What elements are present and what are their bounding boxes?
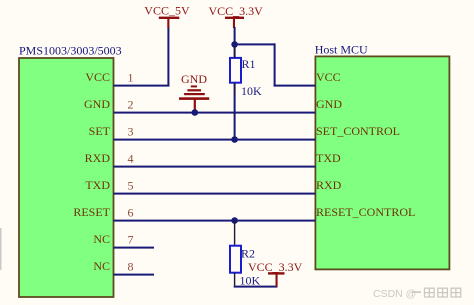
svg-text:6: 6 — [128, 205, 134, 219]
svg-text:4: 4 — [128, 151, 134, 165]
wire branch horizontal into host VCC pin — [274, 85, 316, 87]
svg-text:7: 7 — [128, 232, 134, 246]
ground symbol bar 2 — [187, 89, 201, 91]
wire pin2 GND horizontal — [114, 112, 316, 114]
svg-text:TXD: TXD — [85, 178, 110, 192]
svg-text:VCC_3.3V: VCC_3.3V — [248, 260, 303, 274]
svg-text:Host MCU: Host MCU — [315, 43, 368, 57]
svg-text:CSDN @: CSDN @ — [373, 288, 416, 300]
wire pin5 TXD horizontal — [114, 193, 316, 195]
junction dot RESET pull-up — [231, 217, 238, 224]
watermark CJK glyph 3 (yan) — [438, 288, 448, 297]
svg-text:GND: GND — [84, 97, 110, 111]
wire pin4 RXD horizontal — [114, 166, 316, 168]
watermark CJK glyph 2 (he) — [425, 288, 435, 297]
junction dot GND line — [192, 109, 199, 116]
watermark CJK glyph 4 (yu) — [451, 288, 461, 297]
svg-text:RESET: RESET — [73, 205, 110, 219]
svg-text:TXD: TXD — [316, 151, 341, 165]
wire VCC_5V vertical drop — [167, 27, 169, 87]
wire pin6 RESET horizontal — [114, 220, 316, 222]
power port VCC_3.3V bottom bar — [268, 272, 285, 274]
ground symbol bar 1 (smallest) — [191, 85, 197, 87]
resistor R1 body — [230, 58, 241, 83]
wire RESET junction to R2 — [234, 221, 235, 247]
svg-text:VCC_3.3V: VCC_3.3V — [209, 4, 264, 18]
svg-text:VCC_5V: VCC_5V — [144, 4, 190, 18]
svg-text:8: 8 — [128, 259, 134, 273]
svg-text:PMS1003/3003/5003: PMS1003/3003/5003 — [19, 44, 122, 58]
wire pin3 SET horizontal — [114, 139, 316, 141]
watermark CJK glyph 1 (yi) — [412, 291, 422, 293]
svg-text:RXD: RXD — [85, 151, 111, 165]
power port VCC_3.3V bottom stem — [276, 274, 278, 287]
svg-text:R2: R2 — [241, 247, 255, 261]
svg-text:1: 1 — [128, 70, 134, 84]
junction dot SET pull-up — [231, 136, 238, 143]
power port VCC_3.3V top stem — [233, 18, 235, 28]
svg-text:3: 3 — [128, 124, 134, 138]
ground symbol bar 4 (widest) — [179, 97, 209, 100]
svg-text:VCC: VCC — [85, 70, 110, 84]
power port VCC_5V stem — [167, 18, 169, 28]
svg-text:GND: GND — [316, 97, 342, 111]
junction dot VCC_3.3V branch — [231, 41, 238, 48]
wire branch horizontal to host VCC — [235, 43, 276, 45]
resistor R1 top pin — [234, 46, 235, 58]
resistor R2 body — [230, 246, 241, 273]
power port VCC_5V bar — [159, 17, 180, 19]
component U2 Host MCU body — [315, 56, 449, 269]
left screenshot edge artifact — [0, 228, 2, 270]
resistor R1 bottom pin — [234, 83, 235, 95]
svg-text:VCC: VCC — [316, 70, 341, 84]
svg-text:2: 2 — [128, 97, 134, 111]
svg-text:NC: NC — [93, 232, 110, 246]
ground symbol GND stem — [194, 99, 196, 112]
wire branch vertical down — [274, 43, 276, 86]
svg-text:RESET_CONTROL: RESET_CONTROL — [316, 205, 415, 219]
power port VCC_3.3V top bar — [225, 17, 244, 19]
svg-text:10K: 10K — [241, 84, 262, 98]
svg-text:R1: R1 — [242, 57, 256, 71]
svg-text:GND: GND — [181, 72, 207, 86]
component U1 PMS1003/3003/5003 body — [19, 58, 114, 297]
ground symbol bar 3 — [184, 93, 205, 95]
wire VCC_3.3V vertical to R1 and SET — [234, 27, 236, 140]
svg-text:SET: SET — [89, 124, 111, 138]
wire pin1 VCC horizontal — [114, 85, 170, 87]
svg-text:NC: NC — [93, 259, 110, 273]
svg-text:5: 5 — [128, 178, 134, 192]
svg-text:10K: 10K — [240, 273, 261, 287]
wire R2 bottom horizontal — [234, 286, 278, 288]
wire pin8 NC stub — [114, 274, 155, 276]
wire R2 bottom vertical — [234, 273, 235, 287]
wire pin7 NC stub — [114, 247, 155, 249]
svg-text:SET_CONTROL: SET_CONTROL — [316, 124, 400, 138]
svg-text:RXD: RXD — [316, 178, 342, 192]
